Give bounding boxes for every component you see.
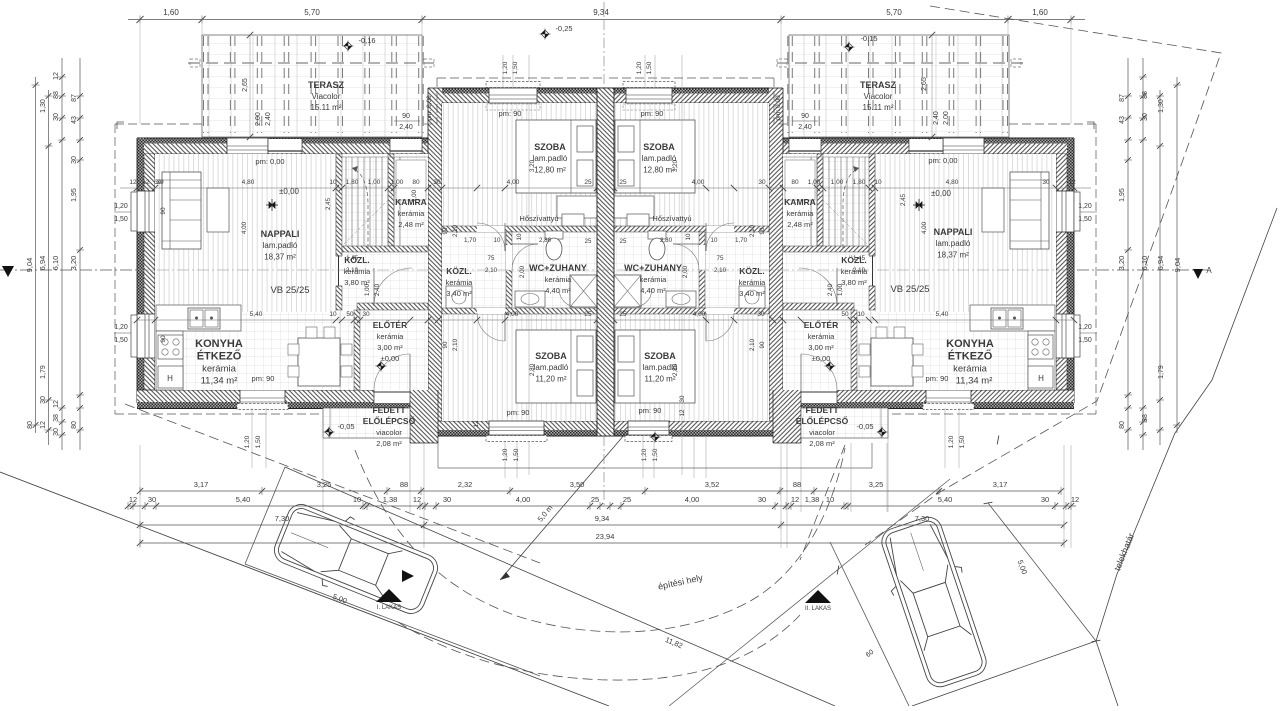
bottom centre windows <box>489 421 544 435</box>
svg-text:Hőszívattyú: Hőszívattyú <box>652 214 691 223</box>
svg-text:1,00: 1,00 <box>364 283 371 296</box>
svg-text:1,80: 1,80 <box>853 179 866 186</box>
svg-text:NAPPALI: NAPPALI <box>934 227 973 237</box>
svg-text:25: 25 <box>585 238 592 245</box>
stairs <box>345 157 347 246</box>
right house mirrored <box>606 35 1097 548</box>
svg-text:11,34 m²: 11,34 m² <box>201 376 238 387</box>
svg-text:30: 30 <box>1042 179 1050 186</box>
5,0 m arrow <box>500 434 625 580</box>
center wing bottom wall <box>438 421 606 430</box>
svg-text:kerámia: kerámia <box>202 364 237 375</box>
svg-text:2,80: 2,80 <box>539 237 552 244</box>
svg-text:pm: 90: pm: 90 <box>641 109 664 118</box>
svg-text:1,20: 1,20 <box>641 448 648 461</box>
svg-text:2,10: 2,10 <box>853 267 866 274</box>
svg-text:4,40 m²: 4,40 m² <box>545 286 571 295</box>
svg-text:1,50: 1,50 <box>513 448 520 461</box>
svg-text:15.11 m²: 15.11 m² <box>863 103 894 112</box>
window left wall 1 <box>137 191 155 232</box>
svg-text:FEDETT: FEDETT <box>805 405 839 415</box>
west wall of center wing <box>428 88 442 421</box>
svg-text:3,20: 3,20 <box>1117 256 1126 271</box>
svg-text:3,20: 3,20 <box>529 159 536 172</box>
svg-text:5,40: 5,40 <box>936 311 949 318</box>
telekhatar dashed envelope <box>865 6 1221 545</box>
door arc <box>236 154 268 186</box>
svg-text:1,79: 1,79 <box>40 365 47 379</box>
svg-text:pm: 90: pm: 90 <box>499 109 522 118</box>
svg-text:pm: 90: pm: 90 <box>639 406 662 415</box>
dimension row y188 <box>120 187 606 189</box>
terrace beam line <box>188 62 436 64</box>
svg-text:lam.padló: lam.padló <box>263 241 298 250</box>
terrace <box>202 35 422 137</box>
stair west wall <box>388 154 394 246</box>
left exterior wall <box>137 154 155 390</box>
svg-text:75: 75 <box>717 255 724 262</box>
svg-text:38: 38 <box>1142 414 1149 422</box>
svg-text:2,40: 2,40 <box>827 283 834 296</box>
bay2 <box>830 542 909 706</box>
svg-text:1,20: 1,20 <box>948 435 955 448</box>
svg-text:10: 10 <box>857 311 865 318</box>
svg-text:11,20 m²: 11,20 m² <box>536 374 567 383</box>
svg-text:2,00: 2,00 <box>255 112 262 126</box>
svg-text:3,00 m²: 3,00 m² <box>377 343 403 352</box>
car 2 <box>872 512 995 693</box>
svg-text:80: 80 <box>412 179 420 186</box>
wall under stairs <box>342 246 428 252</box>
svg-text:30: 30 <box>433 179 441 186</box>
svg-text:3,40 m²: 3,40 m² <box>446 289 472 298</box>
svg-text:2,80: 2,80 <box>660 237 673 244</box>
bed bottom szoba <box>516 330 596 403</box>
stair hall door from terrace <box>390 139 422 153</box>
svg-text:15.11 m²: 15.11 m² <box>311 103 342 112</box>
svg-text:12: 12 <box>129 495 137 504</box>
svg-text:12: 12 <box>129 179 137 186</box>
svg-text:1,79: 1,79 <box>1158 365 1165 379</box>
svg-text:2,00: 2,00 <box>682 265 689 278</box>
svg-text:1,00: 1,00 <box>808 179 821 186</box>
svg-text:2,40: 2,40 <box>374 283 381 296</box>
svg-text:12: 12 <box>1068 179 1076 186</box>
svg-text:ÉTKEZŐ: ÉTKEZŐ <box>948 350 993 363</box>
svg-text:±0,00: ±0,00 <box>279 187 300 196</box>
svg-text:pm: 0,00: pm: 0,00 <box>426 95 433 121</box>
svg-text:TERASZ: TERASZ <box>860 80 897 90</box>
svg-text:7,30: 7,30 <box>275 514 290 523</box>
svg-text:3,40 m²: 3,40 m² <box>739 289 765 298</box>
svg-text:lam.padló: lam.padló <box>936 239 971 248</box>
eaves dashed <box>115 123 202 125</box>
svg-text:pm: 90: pm: 90 <box>507 408 530 417</box>
svg-text:10: 10 <box>516 233 523 240</box>
svg-text:87: 87 <box>1119 94 1126 102</box>
svg-text:1,20: 1,20 <box>636 61 643 74</box>
svg-text:80: 80 <box>71 421 78 429</box>
svg-text:KÖZL.: KÖZL. <box>739 266 765 276</box>
svg-text:lam.padló: lam.padló <box>533 154 568 163</box>
svg-text:43: 43 <box>71 116 78 124</box>
dashed driveway left <box>125 404 540 563</box>
heat pump <box>562 214 584 226</box>
svg-text:18,37 m²: 18,37 m² <box>264 252 296 261</box>
svg-text:1,50: 1,50 <box>1078 216 1092 223</box>
svg-text:6,94: 6,94 <box>1156 256 1165 271</box>
svg-text:kerámia: kerámia <box>377 332 405 341</box>
svg-text:KÖZL.: KÖZL. <box>446 266 472 276</box>
svg-text:ELŐLÉPCSŐ: ELŐLÉPCSŐ <box>796 415 849 426</box>
sofa <box>162 172 201 249</box>
window bottom wall <box>240 390 285 408</box>
svg-text:3,52: 3,52 <box>705 480 720 489</box>
svg-text:±0,00: ±0,00 <box>381 354 400 363</box>
left wing bottom wall <box>137 390 423 402</box>
svg-text:2,40: 2,40 <box>399 124 413 131</box>
svg-text:ELŐTÉR: ELŐTÉR <box>373 319 407 330</box>
svg-text:SZOBA: SZOBA <box>644 351 676 361</box>
svg-text:1,00: 1,00 <box>837 283 844 296</box>
svg-text:1,50: 1,50 <box>1078 337 1092 344</box>
svg-text:NAPPALI: NAPPALI <box>261 229 300 239</box>
svg-text:90: 90 <box>442 341 449 348</box>
section line A-A <box>0 269 137 271</box>
svg-text:10: 10 <box>711 237 718 244</box>
svg-text:2,10: 2,10 <box>714 267 727 274</box>
svg-text:10: 10 <box>494 237 501 244</box>
elotér doors <box>374 268 412 306</box>
svg-text:kerámia: kerámia <box>739 278 767 287</box>
svg-text:25: 25 <box>584 311 592 318</box>
porch east wall <box>410 390 438 443</box>
svg-text:4,00: 4,00 <box>516 495 531 504</box>
svg-text:9,04: 9,04 <box>25 258 34 273</box>
bay1 top edge long line with 11,82 <box>285 467 835 706</box>
svg-text:12: 12 <box>53 72 60 80</box>
svg-text:I. LAKAS: I. LAKAS <box>377 605 401 611</box>
svg-text:3,20: 3,20 <box>69 256 78 271</box>
svg-text:1,00: 1,00 <box>391 179 404 186</box>
svg-text:kerámia: kerámia <box>787 209 815 218</box>
door arcs interior <box>477 223 505 251</box>
svg-text:1,30: 1,30 <box>40 99 47 113</box>
svg-text:Hőszívattyú: Hőszívattyú <box>519 214 558 223</box>
elotér north wall <box>357 303 428 310</box>
window in top wall <box>227 138 268 154</box>
svg-text:2,40: 2,40 <box>798 124 812 131</box>
svg-text:30: 30 <box>1041 495 1049 504</box>
svg-text:90: 90 <box>801 113 809 120</box>
svg-text:WC+ZUHANY: WC+ZUHANY <box>624 263 682 273</box>
svg-text:30: 30 <box>156 179 164 186</box>
svg-text:kerámia: kerámia <box>398 209 426 218</box>
svg-text:kerámia: kerámia <box>953 364 988 375</box>
svg-text:10: 10 <box>329 179 337 186</box>
svg-text:5,40: 5,40 <box>938 495 953 504</box>
svg-text:88: 88 <box>400 480 408 489</box>
dashed arcs <box>355 448 845 632</box>
svg-text:1,38: 1,38 <box>383 495 398 504</box>
entry door porch <box>374 390 410 403</box>
svg-text:1,70: 1,70 <box>735 237 748 244</box>
svg-text:2,80: 2,80 <box>672 363 679 376</box>
3,00 dim line <box>669 479 950 706</box>
svg-text:10: 10 <box>353 495 361 504</box>
dimension row y320 <box>137 319 606 321</box>
svg-text:30: 30 <box>679 395 686 402</box>
svg-text:Viacolor: Viacolor <box>312 92 341 101</box>
svg-text:12: 12 <box>40 421 47 429</box>
svg-text:43: 43 <box>1119 116 1126 124</box>
kitchen counters <box>156 305 241 331</box>
svg-text:3,17: 3,17 <box>993 480 1008 489</box>
svg-text:VB 25/25: VB 25/25 <box>890 284 929 295</box>
floors <box>155 154 428 390</box>
svg-text:87: 87 <box>71 94 78 102</box>
svg-text:1,20: 1,20 <box>1078 324 1092 331</box>
parking bay 1 <box>245 467 285 564</box>
svg-text:1,50: 1,50 <box>646 61 653 74</box>
svg-text:6,10: 6,10 <box>1140 256 1149 271</box>
road line <box>0 472 609 706</box>
svg-text:1,60: 1,60 <box>1032 8 1048 17</box>
svg-text:4,00: 4,00 <box>685 495 700 504</box>
svg-text:90: 90 <box>759 341 766 348</box>
svg-text:ELŐTÉR: ELŐTÉR <box>804 319 838 330</box>
svg-text:1,20: 1,20 <box>502 448 509 461</box>
triangle lakas 2 <box>805 590 831 603</box>
svg-text:2,10: 2,10 <box>485 267 498 274</box>
svg-text:1,95: 1,95 <box>1119 188 1126 202</box>
svg-text:10: 10 <box>874 179 882 186</box>
svg-text:3,50: 3,50 <box>570 480 585 489</box>
svg-text:2,10: 2,10 <box>346 267 359 274</box>
H unit <box>158 366 183 388</box>
svg-text:1,50: 1,50 <box>114 216 128 223</box>
svg-text:9,04: 9,04 <box>1173 258 1182 273</box>
svg-text:75: 75 <box>488 255 495 262</box>
svg-text:2,45: 2,45 <box>325 197 332 210</box>
svg-text:2,80: 2,80 <box>529 363 536 376</box>
svg-text:25: 25 <box>619 311 627 318</box>
svg-text:30: 30 <box>1142 113 1149 121</box>
svg-text:-0,05: -0,05 <box>856 422 873 431</box>
svg-text:1,20: 1,20 <box>1078 203 1092 210</box>
svg-text:50: 50 <box>841 311 849 318</box>
telekhatar solid <box>1096 208 1277 706</box>
left wing top wall <box>137 138 430 154</box>
svg-text:30: 30 <box>757 311 765 318</box>
svg-text:1,45: 1,45 <box>346 255 359 262</box>
svg-text:2,10: 2,10 <box>749 224 756 237</box>
svg-text:1,45: 1,45 <box>853 255 866 262</box>
svg-text:5,70: 5,70 <box>304 8 320 17</box>
left vertical chains <box>35 77 37 433</box>
svg-text:5,70: 5,70 <box>886 8 902 17</box>
svg-text:2,10: 2,10 <box>749 338 756 351</box>
interior partition nappali/stairs <box>336 154 342 310</box>
svg-text:TERASZ: TERASZ <box>308 80 345 90</box>
szoba-bottom north wall <box>442 308 598 314</box>
svg-text:1,80: 1,80 <box>346 179 359 186</box>
svg-text:2,08 m²: 2,08 m² <box>809 439 835 448</box>
svg-text:II. LAKAS: II. LAKAS <box>805 606 831 612</box>
svg-text:lam.padló: lam.padló <box>534 363 569 372</box>
svg-text:4,40 m²: 4,40 m² <box>640 286 666 295</box>
svg-text:1,20: 1,20 <box>244 435 251 448</box>
svg-text:2,48 m²: 2,48 m² <box>398 220 424 229</box>
svg-text:3,17: 3,17 <box>194 480 209 489</box>
svg-text:3,20: 3,20 <box>672 159 679 172</box>
svg-text:1,60: 1,60 <box>163 8 179 17</box>
svg-text:90: 90 <box>160 207 167 215</box>
svg-text:1,30: 1,30 <box>1158 99 1165 113</box>
svg-text:4,00: 4,00 <box>241 221 248 234</box>
svg-text:80: 80 <box>1119 421 1126 429</box>
dining table <box>298 338 340 386</box>
bottom witness lines <box>139 445 141 548</box>
triangle lakas 1 <box>376 589 402 602</box>
svg-text:±0,00: ±0,00 <box>812 354 831 363</box>
svg-text:pm: 90: pm: 90 <box>926 374 949 383</box>
svg-text:12: 12 <box>1071 495 1079 504</box>
car 1 <box>268 495 444 624</box>
svg-text:25: 25 <box>584 179 592 186</box>
svg-text:3,25: 3,25 <box>869 480 884 489</box>
svg-text:9,34: 9,34 <box>595 514 610 523</box>
svg-text:25: 25 <box>623 495 631 504</box>
svg-text:25: 25 <box>620 238 627 245</box>
svg-text:5,40: 5,40 <box>236 495 251 504</box>
svg-text:4,00: 4,00 <box>692 179 705 186</box>
svg-text:12: 12 <box>791 495 799 504</box>
svg-text:2,00: 2,00 <box>519 265 526 278</box>
svg-text:4,80: 4,80 <box>242 179 255 186</box>
elotér west wall <box>354 310 360 390</box>
svg-text:kerámia: kerámia <box>446 278 474 287</box>
svg-text:1,00: 1,00 <box>831 179 844 186</box>
party wall <box>597 88 614 436</box>
wardrobe kamra <box>396 160 426 200</box>
svg-text:11,34 m²: 11,34 m² <box>956 376 993 387</box>
svg-text:7,30: 7,30 <box>915 514 930 523</box>
svg-text:2,40: 2,40 <box>933 111 940 125</box>
svg-text:H: H <box>1038 374 1044 383</box>
svg-text:pm: 0,00: pm: 0,00 <box>255 157 284 166</box>
svg-text:5,40: 5,40 <box>250 311 263 318</box>
bed top szoba <box>516 120 596 193</box>
svg-text:kerámia: kerámia <box>640 275 668 284</box>
svg-text:-0,15: -0,15 <box>860 34 877 43</box>
svg-text:2,65: 2,65 <box>242 78 249 92</box>
svg-text:12: 12 <box>142 179 150 186</box>
svg-text:pm: 0,00: pm: 0,00 <box>775 95 782 121</box>
svg-text:1,70: 1,70 <box>464 237 477 244</box>
svg-text:viacolor: viacolor <box>376 428 402 437</box>
svg-text:2,10: 2,10 <box>452 338 459 351</box>
level markers <box>343 41 354 52</box>
szoba-top south wall <box>442 226 598 232</box>
svg-text:±0,00: ±0,00 <box>931 189 952 198</box>
svg-text:90: 90 <box>402 113 410 120</box>
center wing top wall <box>442 88 606 103</box>
shower <box>570 275 597 307</box>
right vertical chains <box>1176 77 1178 433</box>
top dim chain <box>128 19 1085 21</box>
svg-text:12: 12 <box>413 495 421 504</box>
svg-text:90: 90 <box>442 227 449 234</box>
svg-text:30: 30 <box>758 495 766 504</box>
svg-text:30: 30 <box>443 495 451 504</box>
svg-text:4,00: 4,00 <box>506 311 519 318</box>
svg-text:10: 10 <box>685 233 692 240</box>
svg-text:2,32: 2,32 <box>458 480 473 489</box>
svg-text:23,94: 23,94 <box>596 532 615 541</box>
svg-text:12,80 m²: 12,80 m² <box>534 165 566 174</box>
svg-text:10: 10 <box>329 311 337 318</box>
walkway front edge <box>438 467 872 469</box>
vertical witness x529 <box>528 55 530 475</box>
svg-text:1,95: 1,95 <box>71 188 78 202</box>
svg-text:25: 25 <box>619 179 627 186</box>
svg-text:18,37 m²: 18,37 m² <box>937 250 969 259</box>
svg-text:pm: 90: pm: 90 <box>252 374 275 383</box>
door gap to terrace <box>268 139 302 153</box>
svg-text:6,94: 6,94 <box>38 256 47 271</box>
svg-text:88: 88 <box>1142 91 1149 99</box>
koezl/wc wall <box>506 232 512 308</box>
svg-text:kerámia: kerámia <box>808 332 836 341</box>
terrace dims <box>249 35 251 137</box>
svg-text:9,34: 9,34 <box>593 8 609 17</box>
svg-text:1,20: 1,20 <box>114 324 128 331</box>
svg-text:1,50: 1,50 <box>255 435 262 448</box>
svg-text:VB 25/25: VB 25/25 <box>270 285 309 296</box>
svg-text:2,00: 2,00 <box>943 111 950 125</box>
window left wall 2 <box>137 314 155 358</box>
svg-text:2,40: 2,40 <box>265 112 272 126</box>
svg-text:6,10: 6,10 <box>51 256 60 271</box>
left house geometry <box>115 35 606 548</box>
svg-text:90: 90 <box>160 335 167 343</box>
svg-text:WC+ZUHANY: WC+ZUHANY <box>529 263 587 273</box>
wc fixtures <box>545 231 563 239</box>
svg-text:2,10: 2,10 <box>452 224 459 237</box>
svg-text:12: 12 <box>679 409 686 416</box>
svg-text:SZOBA: SZOBA <box>535 351 567 361</box>
svg-text:80: 80 <box>791 179 799 186</box>
svg-text:KONYHA: KONYHA <box>946 338 994 350</box>
svg-text:4,00: 4,00 <box>921 221 928 234</box>
svg-text:viacolor: viacolor <box>809 428 835 437</box>
svg-text:Viacolor: Viacolor <box>864 92 893 101</box>
svg-text:1,50: 1,50 <box>959 435 966 448</box>
svg-text:KONYHA: KONYHA <box>195 338 243 350</box>
porch floor <box>323 408 410 438</box>
svg-text:30: 30 <box>148 495 156 504</box>
corner bracket <box>117 122 124 129</box>
svg-text:1,00: 1,00 <box>411 189 418 202</box>
svg-text:38: 38 <box>53 414 60 422</box>
svg-text:88: 88 <box>53 91 60 99</box>
svg-text:ELŐLÉPCSŐ: ELŐLÉPCSŐ <box>363 415 416 426</box>
svg-text:3,00 m²: 3,00 m² <box>808 343 834 352</box>
svg-text:1,20: 1,20 <box>114 203 128 210</box>
washing machine <box>446 286 472 308</box>
svg-text:10: 10 <box>826 495 834 504</box>
